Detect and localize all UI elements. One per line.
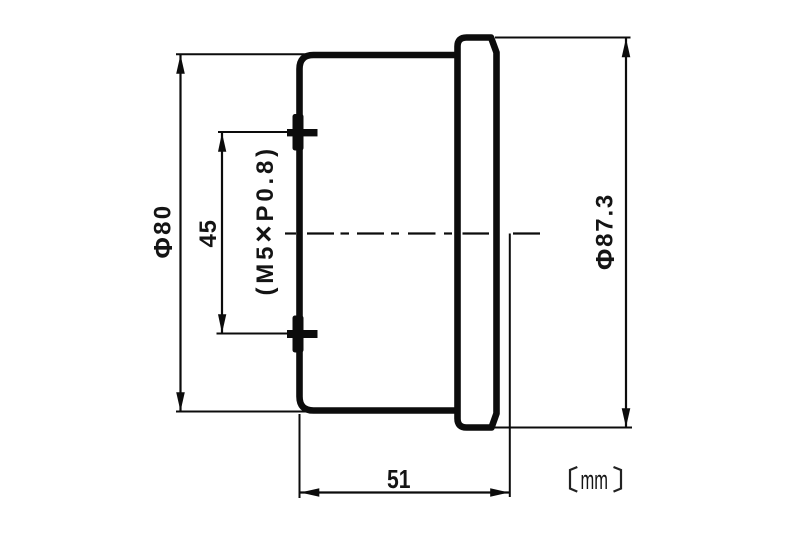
centerline (dash-dot) <box>285 232 540 234</box>
dimension phi87.3: dimension line <box>625 39 627 428</box>
svg-text:Φ80: Φ80 <box>148 204 178 259</box>
dimension 51: arrow left <box>300 488 319 497</box>
units note [mm]: right bracket <box>614 467 622 492</box>
dimension phi80: arrow top <box>176 55 185 74</box>
stud boss upper <box>293 114 304 151</box>
dimension phi80: arrow bottom <box>176 392 185 411</box>
dimension phi80: extension line top <box>176 53 311 55</box>
svg-text:mm: mm <box>581 465 609 495</box>
dimension phi87.3: extension line top <box>495 37 631 39</box>
stud crossbar lower <box>287 330 318 338</box>
dimension phi87.3: extension line bottom <box>494 427 632 429</box>
stud boss lower <box>293 316 304 353</box>
dimension 51: dimension line <box>300 491 510 493</box>
units note [mm]: left bracket <box>570 467 577 492</box>
dimension 45: extension line top <box>218 131 288 133</box>
dimension 45: dimension line <box>221 133 223 333</box>
dimension 51: extension line left <box>299 414 301 498</box>
dimension phi87.3: arrow top <box>622 38 631 57</box>
svg-text:(M5×P0.8): (M5×P0.8) <box>248 145 281 295</box>
dimension 51: extension line right <box>509 234 511 498</box>
stud crossbar upper <box>287 129 318 136</box>
svg-text:Φ87.3: Φ87.3 <box>590 193 620 270</box>
dimension phi80: extension line bottom <box>176 411 311 413</box>
svg-text:45: 45 <box>195 219 222 247</box>
dimension phi80: dimension line <box>179 55 181 411</box>
dimension 45: arrow top <box>218 133 226 152</box>
bezel outline <box>458 38 497 428</box>
dimension 45: arrow bottom <box>218 314 226 333</box>
dimension phi87.3: arrow bottom <box>622 408 631 427</box>
svg-text:51: 51 <box>387 464 411 494</box>
gauge body outline <box>300 55 458 411</box>
dimension 45: extension line bottom <box>217 333 289 335</box>
dimension 51: arrow right <box>490 488 509 497</box>
